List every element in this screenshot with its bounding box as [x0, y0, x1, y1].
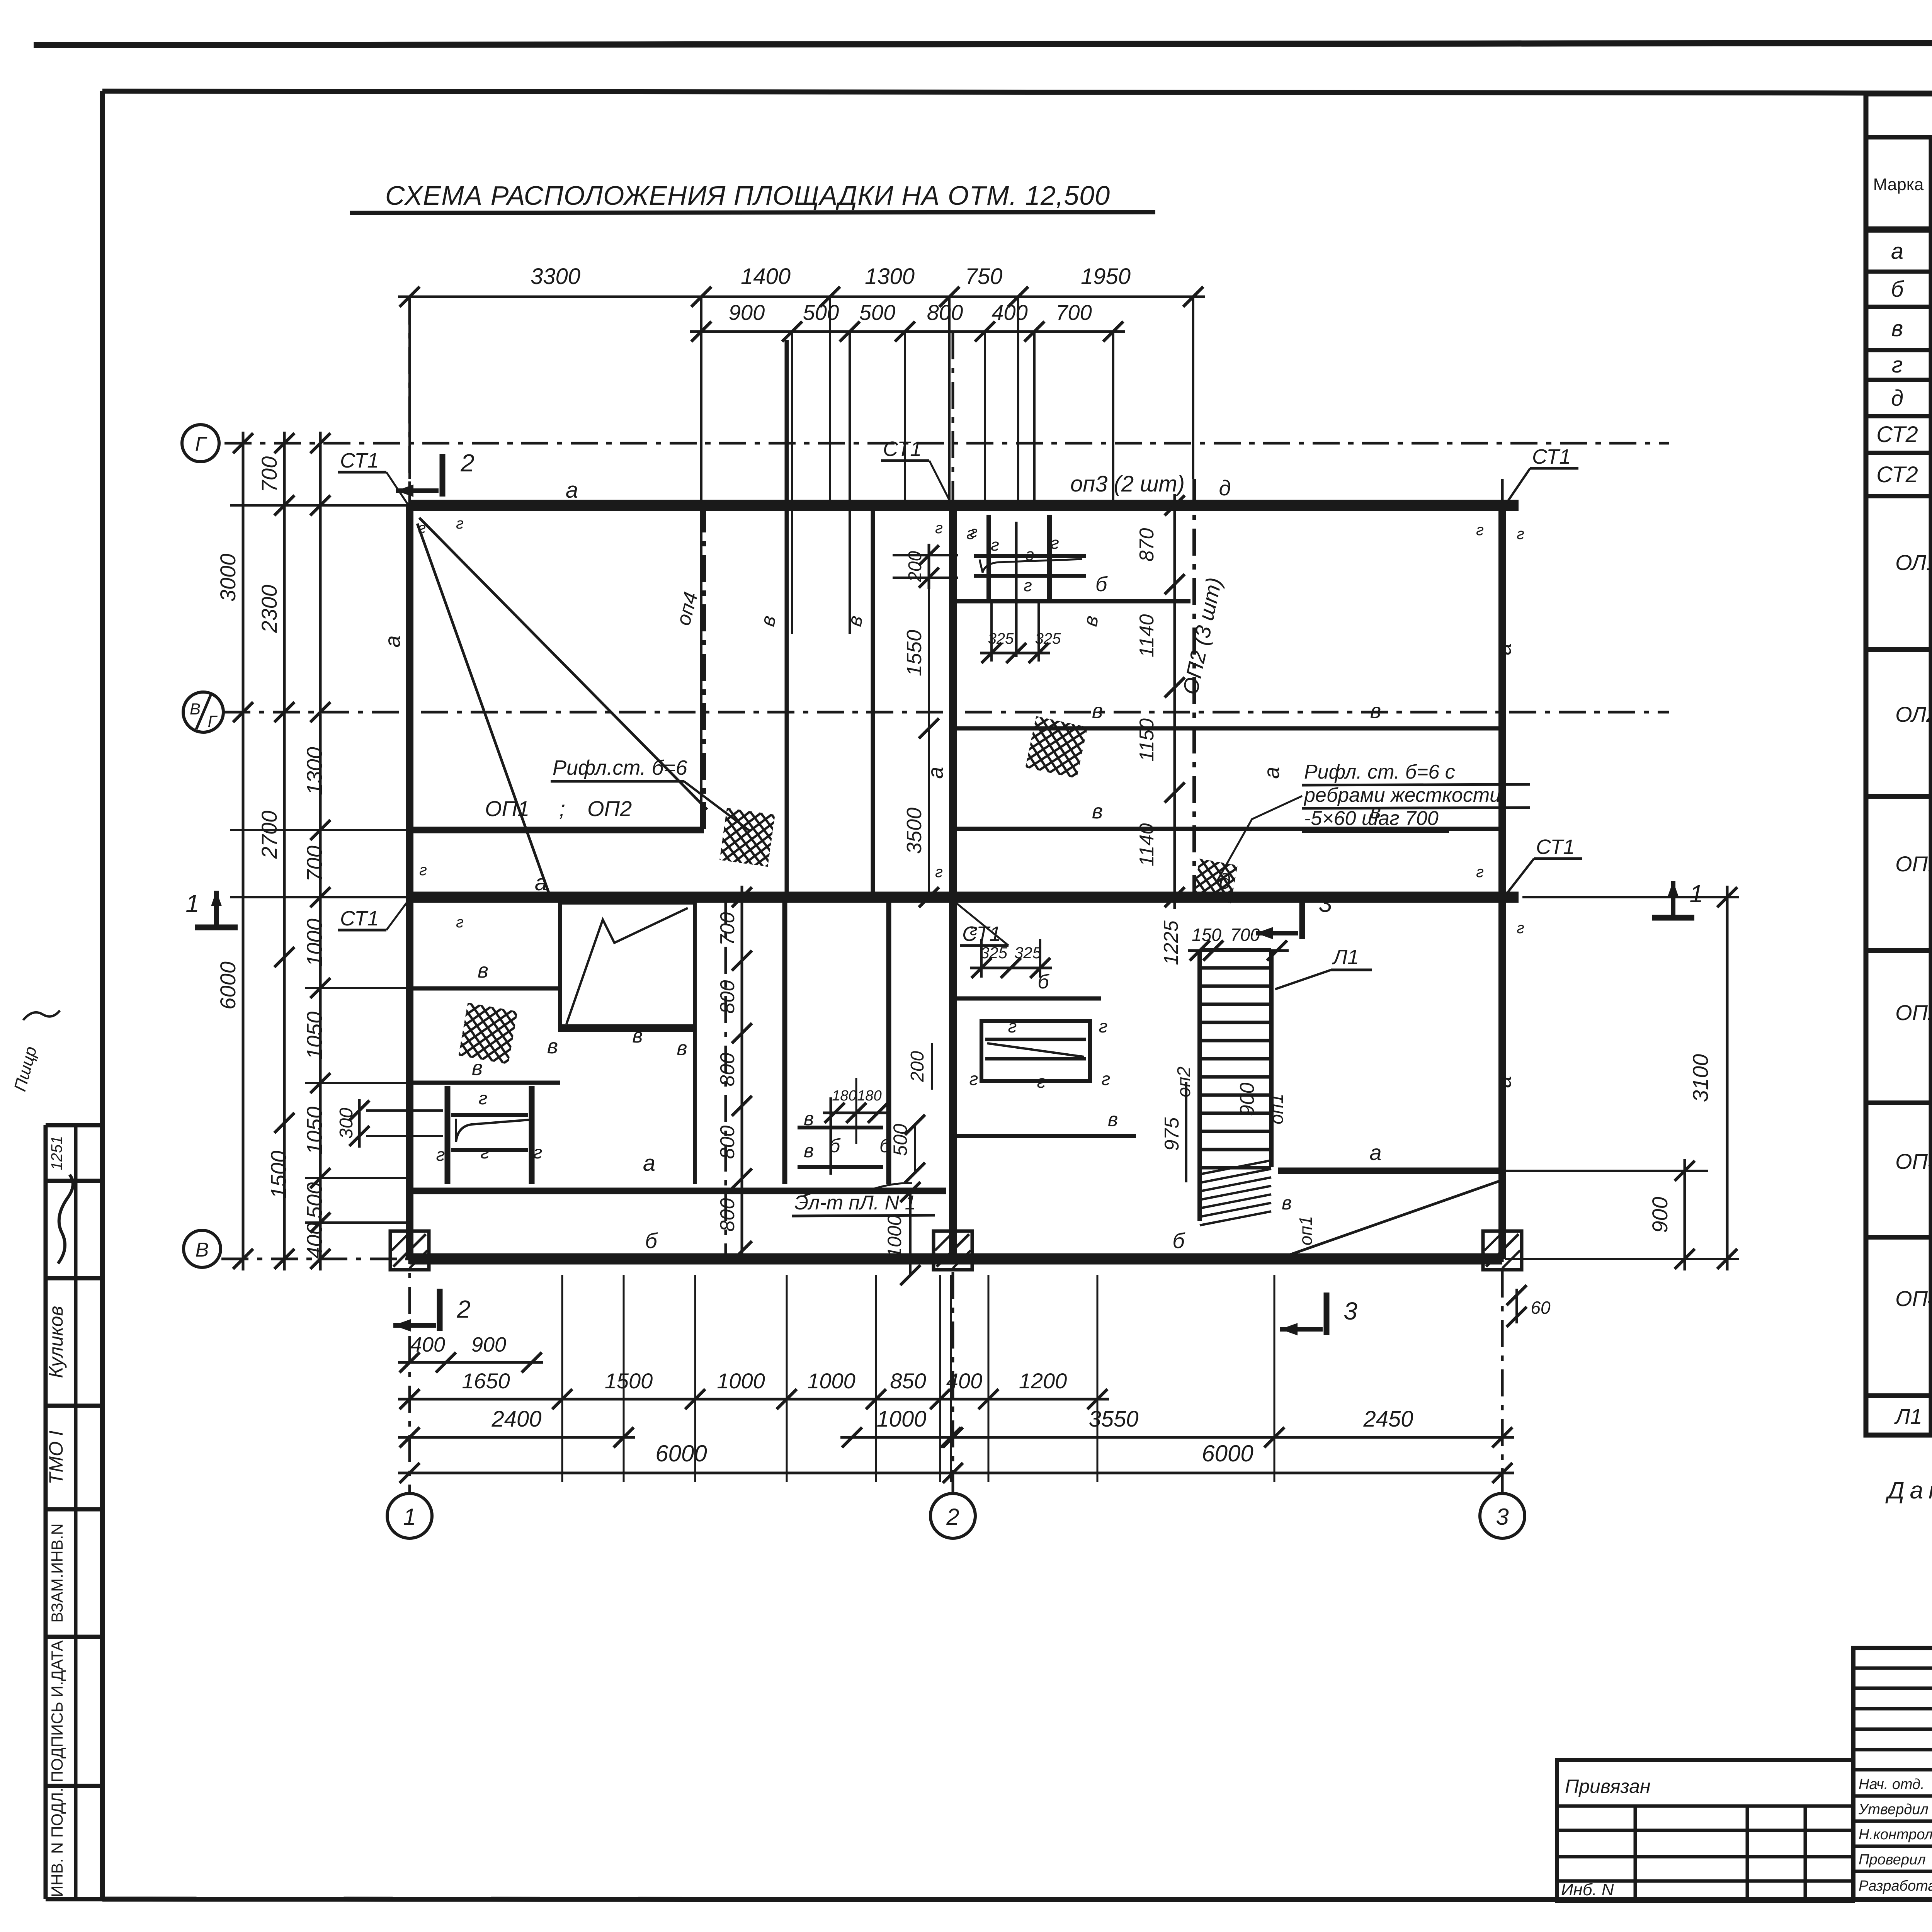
left dim chain outer [242, 432, 245, 1270]
svg-text:1000: 1000 [302, 918, 327, 967]
upper-left diagonal leader 1 [419, 518, 707, 810]
svg-text:а: а [1891, 239, 1903, 264]
title block signature grid [1853, 1648, 1932, 1899]
upper horizontal ОП1-ОП2 line [410, 827, 704, 833]
svg-text:3: 3 [1344, 1297, 1357, 1325]
svg-text:3: 3 [1318, 889, 1332, 917]
axis 2 dash-dot line [952, 332, 954, 1493]
svg-text:2: 2 [946, 1504, 959, 1530]
svg-text:1200: 1200 [1019, 1369, 1067, 1393]
axis 3 dash-dot line [1501, 479, 1504, 1493]
svg-text:Утвердил: Утвердил [1858, 1801, 1929, 1818]
svg-text:а: а [566, 478, 578, 503]
svg-text:оп2: оп2 [1174, 1066, 1194, 1097]
svg-text:а: а [923, 767, 947, 779]
svg-text:3550: 3550 [1088, 1406, 1138, 1432]
svg-text:оп1: оп1 [1267, 1094, 1287, 1124]
svg-text:в: в [1108, 1109, 1118, 1130]
svg-text:а: а [643, 1151, 655, 1176]
hatch patch lower-left [458, 1003, 517, 1065]
svg-text:975: 975 [1161, 1117, 1183, 1151]
svg-text:г: г [436, 1145, 445, 1165]
right bay diagonal leader [1287, 1180, 1501, 1256]
svg-text:СТ1: СТ1 [1536, 835, 1575, 859]
svg-text:в: в [632, 1025, 643, 1047]
svg-text:6000: 6000 [216, 961, 240, 1010]
footing axis2 [934, 1231, 972, 1270]
svg-text:400: 400 [410, 1333, 445, 1356]
svg-text:6000: 6000 [655, 1440, 707, 1466]
svg-text:а: а [1369, 1140, 1381, 1165]
svg-text:180: 180 [857, 1088, 881, 1104]
svg-text:1140: 1140 [1136, 614, 1158, 658]
lower mid dim chain 700-800s [741, 886, 743, 1263]
svg-text:180: 180 [832, 1088, 856, 1104]
svg-text:2: 2 [460, 449, 474, 477]
left stamp strip grid [46, 1125, 102, 1899]
vertical line v1 upper [785, 340, 789, 897]
svg-text:850: 850 [890, 1369, 926, 1393]
interior right dim chain [1173, 494, 1176, 909]
axis Г dash-dot line [224, 442, 1669, 445]
svg-text:г: г [1517, 526, 1524, 543]
svg-text:Рифл.ст. б=6: Рифл.ст. б=6 [553, 756, 688, 779]
footing axis3 [1483, 1231, 1522, 1270]
svg-text:а: а [535, 870, 547, 895]
svg-text:1150: 1150 [1136, 718, 1158, 762]
svg-text:150: 150 [1192, 925, 1221, 945]
svg-text:г: г [1026, 545, 1034, 564]
svg-text:;: ; [559, 796, 565, 821]
bottom dim chain 400 900 [398, 1361, 543, 1364]
svg-text:1950: 1950 [1081, 264, 1131, 289]
upper mid bay horizontal б [955, 599, 1190, 604]
svg-text:г: г [1024, 576, 1032, 595]
титле block outer [1853, 1648, 1932, 1899]
svg-text:ОП3: ОП3 [1895, 1149, 1932, 1173]
svg-text:д: д [1891, 386, 1903, 411]
table header verticals [1931, 137, 1932, 1435]
axis 2 circle [930, 1493, 975, 1538]
svg-text:800: 800 [716, 980, 739, 1014]
mid detail box [981, 1021, 1090, 1081]
svg-text:в: в [677, 1037, 687, 1060]
axis 1 dash-dot line [408, 298, 411, 1493]
svg-text:г: г [1517, 920, 1524, 937]
svg-text:300: 300 [336, 1108, 357, 1139]
svg-text:700: 700 [716, 912, 739, 946]
svg-text:325: 325 [980, 944, 1008, 962]
svg-text:800: 800 [927, 300, 963, 325]
svg-text:ТМО I: ТМО I [45, 1430, 67, 1485]
table header bottom line [1866, 226, 1932, 233]
svg-text:2700: 2700 [257, 811, 281, 859]
section mark 2 top [440, 454, 446, 497]
svg-text:700: 700 [1230, 925, 1260, 945]
svg-text:ПОДПИСЬ И.ДАТА: ПОДПИСЬ И.ДАТА [48, 1640, 66, 1782]
outer top border line [34, 42, 1932, 45]
svg-text:в: в [1282, 1192, 1292, 1214]
axis 3 circle [1480, 1493, 1525, 1538]
svg-text:Н.контроль: Н.контроль [1859, 1827, 1932, 1843]
svg-text:500: 500 [803, 300, 839, 325]
svg-text:г: г [1037, 1071, 1046, 1092]
auxiliary table grid [1557, 1806, 1853, 1901]
top dim chain 1 [398, 296, 1205, 298]
svg-text:б: б [1095, 573, 1108, 596]
svg-text:в: в [478, 959, 488, 982]
svg-text:СТ2: СТ2 [1876, 462, 1918, 487]
svg-text:г: г [456, 515, 464, 532]
svg-text:1: 1 [1689, 880, 1703, 908]
svg-text:2300: 2300 [257, 585, 281, 633]
axis 1 circle [387, 1493, 432, 1538]
svg-text:СХЕМА РАСПОЛОЖЕНИЯ ПЛОЩАДКИ: СХЕМА РАСПОЛОЖЕНИЯ ПЛОЩАДКИ НА ОТМ. 12,5… [385, 180, 1110, 211]
svg-text:Инб. N: Инб. N [1561, 1880, 1614, 1899]
svg-text:ОП4: ОП4 [1895, 1286, 1932, 1311]
lower mid small lines [798, 1126, 883, 1129]
svg-text:2400: 2400 [491, 1406, 541, 1432]
mid bay horizontal в line [955, 1134, 1136, 1138]
svg-text:1: 1 [403, 1504, 416, 1530]
hatch patch right [1193, 859, 1238, 903]
svg-text:1225: 1225 [1160, 920, 1182, 965]
left dim 300 ticks [366, 1109, 443, 1112]
svg-text:Куликов: Куликов [45, 1306, 67, 1378]
svg-text:Эл-т пЛ. N 1: Эл-т пЛ. N 1 [794, 1192, 916, 1214]
top dim chain 2 [690, 330, 1125, 333]
upper detail dim 200 [928, 544, 930, 589]
svg-text:3500: 3500 [903, 808, 926, 854]
axis В/Г circle [183, 692, 223, 732]
vertical line v2 upper [871, 505, 875, 897]
dim 325 pair lower [970, 967, 1052, 969]
svg-text:1000: 1000 [807, 1369, 855, 1393]
top beam a-d [410, 500, 1519, 511]
svg-text:900: 900 [471, 1333, 506, 1356]
svg-text:ОП1: ОП1 [1895, 852, 1932, 876]
svg-text:г: г [970, 922, 978, 939]
svg-text:750: 750 [965, 264, 1003, 289]
right dim 900 [1684, 1159, 1686, 1270]
svg-text:ОЛ2: ОЛ2 [1895, 702, 1932, 726]
hatch patch upper-left [719, 808, 775, 867]
svg-text:оп3 (2 шт): оп3 (2 шт) [1070, 471, 1185, 497]
bottom dim chain 6000 [398, 1472, 1514, 1475]
svg-text:900: 900 [1236, 1083, 1259, 1116]
svg-text:в: в [547, 1035, 558, 1058]
svg-text:ОП2: ОП2 [587, 796, 632, 821]
svg-text:3100: 3100 [1688, 1054, 1713, 1102]
axis В/Г dash-dot line [223, 711, 1669, 714]
svg-text:500: 500 [859, 300, 895, 325]
svg-text:800: 800 [716, 1198, 739, 1232]
svg-text:оп1: оп1 [1296, 1216, 1316, 1245]
right bay lower а line [1278, 1168, 1498, 1174]
svg-text:ОЛ1: ОЛ1 [1895, 550, 1932, 575]
svg-text:г: г [534, 1142, 543, 1162]
svg-text:800: 800 [716, 1053, 739, 1087]
svg-text:Г: Г [208, 712, 218, 730]
svg-text:3000: 3000 [216, 554, 240, 602]
svg-text:г: г [970, 524, 978, 541]
hatch patch upper-mid [1025, 716, 1087, 778]
svg-text:1500: 1500 [266, 1151, 291, 1199]
svg-text:Привязан: Привязан [1565, 1776, 1651, 1797]
section mark 3 bottom [1324, 1293, 1330, 1335]
svg-text:д: д [1219, 476, 1231, 500]
svg-text:-5×60 шаг 700: -5×60 шаг 700 [1304, 807, 1439, 830]
svg-text:200: 200 [907, 1051, 928, 1082]
table title band line [1866, 135, 1932, 139]
svg-text:а: а [1259, 767, 1284, 779]
upper dim 325 pair [980, 652, 1050, 655]
svg-text:500: 500 [302, 1182, 327, 1218]
svg-text:700: 700 [1056, 300, 1092, 325]
svg-text:900: 900 [729, 300, 765, 325]
axis Г circle [182, 425, 219, 462]
stair top dims 150 700 [1188, 949, 1289, 952]
svg-text:1000: 1000 [717, 1369, 765, 1393]
svg-text:а: а [1491, 643, 1515, 655]
svg-text:ОП2: ОП2 [1895, 1000, 1932, 1025]
svg-text:Г: Г [195, 433, 207, 456]
svg-text:г: г [418, 520, 426, 537]
svg-text:900: 900 [1648, 1197, 1672, 1233]
right small dim 60 [1515, 1289, 1518, 1323]
svg-text:а: а [380, 635, 405, 647]
svg-text:1050: 1050 [302, 1107, 327, 1155]
table small rows content [1876, 237, 1932, 487]
table small row lines [1866, 272, 1932, 496]
left dim chain inner [319, 432, 322, 1270]
svg-text:г: г [935, 864, 943, 881]
svg-text:870: 870 [1136, 528, 1158, 562]
section mark 3 mid [1299, 896, 1305, 939]
auxiliary table frame [1557, 1760, 1853, 1901]
lower-left rect detail [560, 903, 695, 1030]
svg-text:б: б [1172, 1228, 1185, 1253]
svg-text:700: 700 [302, 845, 327, 881]
svg-text:Данный лист смотреть с лис: Данный лист смотреть с листом 19 [1885, 1477, 1932, 1504]
svg-text:1500: 1500 [605, 1369, 653, 1393]
svg-text:500: 500 [889, 1124, 911, 1156]
svg-text:г: г [991, 536, 999, 554]
svg-text:СТ2: СТ2 [1876, 422, 1918, 447]
svg-text:В: В [190, 700, 201, 718]
lower mid verticals [693, 903, 697, 1184]
column axis3 [1498, 505, 1506, 1259]
svg-text:б: б [1891, 277, 1905, 302]
svg-text:г: г [1008, 1016, 1017, 1036]
svg-text:г: г [1102, 1069, 1111, 1089]
left dim extension lines [230, 443, 410, 1223]
svg-text:2: 2 [456, 1295, 471, 1323]
bottom dim chain mid [398, 1436, 635, 1439]
svg-text:г: г [1892, 352, 1903, 378]
svg-text:325: 325 [1014, 944, 1042, 962]
svg-text:г: г [456, 914, 464, 931]
bottom dim extension lines [562, 1275, 1274, 1482]
column axis1 [406, 505, 413, 1259]
stair Л1 rails [1197, 950, 1202, 1221]
right dim extensions [1522, 896, 1739, 898]
svg-text:2450: 2450 [1363, 1406, 1413, 1432]
svg-text:1: 1 [185, 889, 199, 917]
inner frame top line [102, 91, 1932, 94]
svg-text:г: г [935, 520, 943, 537]
svg-text:СТ1: СТ1 [1532, 445, 1571, 468]
svg-text:г: г [1099, 1016, 1108, 1036]
svg-text:400: 400 [302, 1223, 327, 1259]
svg-text:в: в [1092, 800, 1103, 823]
svg-text:а: а [1491, 1076, 1515, 1088]
svg-text:в: в [1092, 699, 1103, 723]
svg-text:1140: 1140 [1136, 823, 1158, 867]
section mark 2 bottom [437, 1289, 443, 1331]
dim 180 180 [823, 1112, 889, 1114]
upper detail channel lines [986, 515, 991, 602]
axis В circle [184, 1230, 221, 1267]
svg-text:в: в [1370, 699, 1381, 723]
svg-text:1300: 1300 [302, 747, 327, 795]
table outer frame [1866, 94, 1932, 1435]
svg-text:1300: 1300 [865, 264, 915, 289]
axis В dash-dot stub [221, 1258, 410, 1260]
svg-text:60: 60 [1531, 1298, 1551, 1318]
svg-text:г: г [419, 862, 427, 879]
svg-text:г: г [1476, 522, 1484, 539]
svg-text:400: 400 [992, 300, 1027, 325]
right dim 3100 [1726, 886, 1729, 1270]
svg-text:700: 700 [257, 456, 281, 492]
vertical ОП2-3шт dash-dot [1192, 479, 1196, 897]
svg-text:1050: 1050 [302, 1012, 327, 1060]
inner frame bottom line [102, 1899, 1932, 1900]
svg-text:СТ1: СТ1 [883, 437, 922, 461]
svg-text:Л1: Л1 [1332, 946, 1359, 969]
inner frame left line [100, 91, 105, 1899]
margin squiggle [23, 1010, 60, 1020]
drawing title underline [350, 212, 1155, 213]
svg-text:Проверил: Проверил [1859, 1852, 1926, 1868]
svg-text:ИНВ. N ПОДЛ.: ИНВ. N ПОДЛ. [48, 1787, 66, 1897]
svg-text:1650: 1650 [462, 1369, 510, 1393]
lower-left channel detail [445, 1086, 451, 1184]
middle beam a-d [410, 892, 1519, 903]
svg-text:г: г [481, 1142, 490, 1162]
svg-text:1000: 1000 [884, 1215, 905, 1258]
svg-text:Л1: Л1 [1894, 1404, 1922, 1429]
upper-left diagonal leader 2 [417, 524, 549, 893]
svg-text:1550: 1550 [903, 630, 926, 676]
upper mid bay horizontal в2 [955, 827, 1498, 831]
svg-text:6000: 6000 [1202, 1440, 1253, 1466]
mid bay horizontal б line [955, 997, 1101, 1001]
svg-text:СТ1: СТ1 [340, 907, 379, 930]
section mark 1 left [195, 925, 238, 930]
svg-text:ребрами жесткости: ребрами жесткости [1303, 784, 1501, 806]
svg-text:г: г [969, 1069, 978, 1089]
svg-text:Разработал: Разработал [1859, 1878, 1932, 1894]
top dim extension lines [410, 297, 1193, 830]
svg-text:Нач. отд.: Нач. отд. [1859, 1776, 1925, 1793]
section mark 1 right [1652, 915, 1694, 921]
svg-text:Марка: Марка [1873, 175, 1924, 194]
svg-text:СТ1: СТ1 [340, 449, 379, 472]
svg-text:г: г [1476, 864, 1484, 881]
vertical оп4 dash-dot [702, 505, 706, 830]
svg-text:В: В [196, 1239, 209, 1261]
svg-text:б: б [645, 1228, 658, 1253]
svg-text:в: в [472, 1056, 483, 1080]
left dim chain mid [283, 432, 286, 1270]
column axis2 [949, 505, 957, 1259]
lower-left horizontal в lines [410, 986, 560, 991]
bottom dim chain fine [398, 1398, 1109, 1401]
svg-text:в: в [804, 1140, 814, 1162]
svg-text:3300: 3300 [531, 264, 580, 289]
left small dim 300 [358, 1099, 361, 1148]
stair Л1 rungs [1200, 950, 1271, 1225]
stamp signature scribble [58, 1175, 73, 1264]
svg-text:1400: 1400 [741, 264, 791, 289]
svg-text:800: 800 [716, 1126, 739, 1159]
svg-text:ВЗАМ.ИНВ.N: ВЗАМ.ИНВ.N [48, 1523, 66, 1622]
table section boundary lines [1866, 650, 1932, 1396]
svg-text:г: г [479, 1088, 488, 1108]
bottom beam b [410, 1253, 1502, 1265]
upper mid bay horizontal в1 [955, 726, 1498, 731]
svg-text:г: г [1051, 534, 1059, 553]
svg-text:1251: 1251 [48, 1136, 65, 1170]
title block signature rows [1858, 1774, 1932, 1894]
svg-text:Рифл. ст. б=6 с: Рифл. ст. б=6 с [1304, 761, 1455, 783]
svg-text:3: 3 [1496, 1504, 1509, 1530]
svg-text:в: в [1891, 316, 1903, 341]
footing axis1 [390, 1231, 429, 1270]
svg-text:1000: 1000 [876, 1406, 926, 1432]
